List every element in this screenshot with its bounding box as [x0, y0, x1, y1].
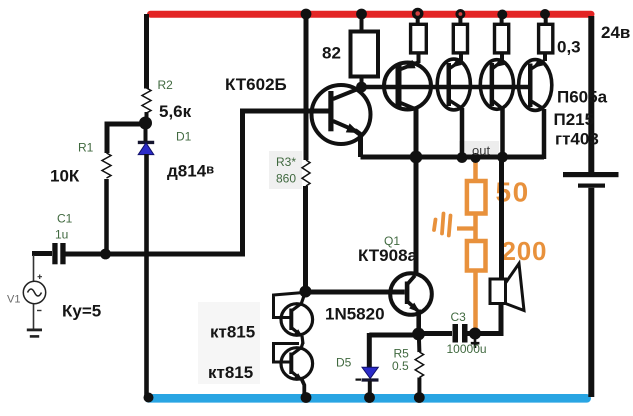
svg-text:10К: 10К [50, 166, 80, 185]
junction dot C3 plus [469, 328, 481, 340]
T4 emitter lead [543, 53, 547, 61]
wire Q1 emitter node to D5 [369, 333, 418, 338]
out bus wire [361, 155, 545, 160]
svg-text:82: 82 [322, 43, 341, 62]
capacitor C3 plate 2 [462, 324, 468, 343]
wire bias node to Q1 base [306, 290, 405, 295]
svg-text:C1: C1 [57, 211, 73, 225]
output transistor T1 circle [384, 63, 431, 110]
kt815 upper base bracket [274, 293, 304, 318]
T3 emitter lead [500, 53, 504, 61]
junction dot C1 node [100, 249, 111, 260]
output transistor T4 circle [519, 60, 552, 111]
speaker [490, 279, 506, 304]
orange wire to C3 node [473, 271, 478, 332]
transistor kt815 lower circle [281, 348, 313, 380]
ground dot D1 [144, 393, 154, 403]
svg-text:1N5820: 1N5820 [325, 304, 385, 323]
label background patch near kt815 labels [198, 302, 260, 384]
wire out bus to speaker [499, 157, 504, 279]
T2 emitter arrow [451, 58, 462, 67]
svg-text:R1: R1 [78, 141, 94, 155]
svg-text:R3*: R3* [276, 155, 296, 169]
junction dot bias node [300, 286, 312, 298]
resistor R5 [415, 352, 423, 378]
wire R2 to node A [145, 112, 149, 122]
junction dot rail 82 [356, 9, 367, 20]
svg-text:out: out [472, 143, 490, 158]
resistor 82 [351, 32, 379, 77]
orange wiper tap [457, 226, 474, 230]
svg-text:кт815: кт815 [210, 323, 255, 342]
terminal ring rail T2 [455, 9, 465, 19]
kt815 lower emitter arrow [294, 373, 304, 381]
Q1 emitter lead [416, 310, 421, 331]
bottom ground rail [149, 394, 587, 403]
V1 minus mark [37, 310, 42, 312]
T4 emitter arrow [532, 59, 543, 68]
wire R1 to C1 node [104, 179, 109, 254]
wire rail to R2 [144, 14, 149, 89]
capacitor C1 plate 1 [52, 243, 57, 264]
svg-text:V1: V1 [7, 294, 20, 306]
svg-text:D5: D5 [336, 356, 352, 370]
orange pot wire from out bus [473, 160, 478, 181]
wire kt815 upper emitter to lower node [302, 336, 303, 344]
svg-text:R2: R2 [158, 78, 174, 92]
svg-text:D1: D1 [176, 130, 192, 144]
svg-text:5,6к: 5,6к [159, 102, 192, 121]
Q1 collector line [408, 276, 416, 285]
wire D5 to ground rail [368, 381, 372, 398]
junction dot bus orange tap [471, 153, 481, 163]
junction dot bus T2 [457, 152, 468, 163]
transistor U1 KT602B circle [312, 85, 371, 144]
kt815 lower base bracket [274, 344, 300, 363]
wire battery to ground rail [588, 188, 594, 397]
zener diode D1 [138, 143, 154, 155]
capacitor C3 plate 1 [453, 324, 459, 343]
T1 emitter arrow [403, 60, 416, 69]
capacitor C1 left wire [32, 251, 52, 256]
wire node A to R1 [107, 124, 146, 153]
transistor U1 KT602B collector line [333, 88, 362, 100]
output transistor T2 circle [437, 59, 470, 110]
svg-text:0.5: 0.5 [392, 359, 409, 373]
T4 emitter line [530, 61, 544, 70]
junction dot KT602B collector [356, 82, 367, 93]
svg-text:860: 860 [276, 171, 296, 185]
T1 collector line [399, 102, 417, 110]
T2 base bar [447, 63, 452, 106]
orange hand marks [434, 214, 451, 236]
junction dot bus T1 [410, 151, 423, 164]
T3 base bar [490, 63, 495, 106]
Q1 base bar [405, 282, 410, 305]
kt815 upper collector line [291, 294, 305, 312]
source V1 [23, 281, 45, 303]
T4 collector lead to bus end [542, 109, 547, 159]
capacitor C3 right wire [468, 331, 477, 336]
transistor Q1 KT908a circle [390, 273, 432, 315]
wire speaker to C3 node [475, 304, 501, 334]
wire 82 to KT602B collector node [360, 77, 364, 88]
battery long plate [563, 172, 619, 177]
ground symbol under V1 [33, 304, 35, 329]
wire rail to R3 [304, 14, 309, 160]
kt815 lower emitter line [291, 372, 301, 380]
T2 collector line [449, 100, 462, 108]
junction dot bus T3 [497, 152, 508, 163]
orange wire between resistors [473, 214, 478, 242]
diode D5 [362, 367, 378, 378]
transistor U1 KT602B emitter arrow [346, 123, 360, 133]
orange resistor 50 [467, 181, 486, 214]
wire C1 to KT602B base [66, 111, 330, 254]
resistor above T4 [539, 24, 553, 53]
ground dot D5 [364, 392, 375, 403]
svg-text:КТ602Б: КТ602Б [225, 75, 287, 94]
node A dot [139, 117, 152, 130]
T3 emitter line [492, 61, 503, 70]
kt815 lower base bar [289, 353, 293, 375]
kt815 lower collector line [291, 343, 303, 356]
Q1 emitter line [408, 302, 418, 311]
T2 emitter lead [459, 53, 463, 61]
wire node A to D1 [144, 123, 148, 141]
svg-text:1u: 1u [55, 228, 68, 242]
capacitor C1 plate 2 [60, 243, 65, 264]
label background patch near out [459, 141, 499, 156]
Q1 emitter arrow [409, 303, 420, 313]
resistor R1 [102, 153, 111, 178]
wire rail to battery [588, 16, 594, 172]
resistor T4 top lead [544, 16, 548, 24]
T3 emitter arrow [494, 58, 505, 67]
svg-text:C3: C3 [451, 310, 467, 324]
resistor 82 top lead [360, 15, 364, 32]
kt815 upper emitter line [291, 328, 301, 336]
junction dot rail R3 [301, 9, 312, 20]
svg-text:200: 200 [502, 236, 548, 266]
top +24V rail [151, 11, 592, 18]
capacitor C3 left wire [419, 331, 453, 336]
junction dot Q1 emitter [412, 328, 425, 341]
svg-text:кт815: кт815 [208, 363, 253, 382]
T4 base bar [528, 64, 533, 108]
ground dot kt815 [301, 392, 312, 403]
resistor R3 [302, 160, 310, 186]
wire down to D5 [367, 333, 372, 367]
battery short plate [578, 184, 605, 188]
T3 collector line [492, 100, 503, 109]
D5 minus tick [356, 379, 362, 381]
kt815 upper emitter arrow [294, 329, 304, 337]
orange resistor 200 [467, 241, 486, 271]
source V1 riser wire [33, 255, 35, 282]
wire D1 anode to ground rail [144, 154, 149, 398]
svg-text:Ку=5: Ку=5 [62, 301, 101, 320]
resistor T1 top lead [416, 17, 420, 24]
wire kt815 lower emitter to ground rail [302, 380, 305, 399]
zener diode D1 cathode bar [138, 141, 154, 144]
V1 plus mark [38, 275, 43, 280]
base bus of output transistors [362, 85, 531, 90]
transistor kt815 upper circle [281, 304, 313, 336]
transistor U1 KT602B base bar [328, 91, 333, 131]
output transistor T3 circle [480, 60, 513, 110]
svg-text:КТ908а: КТ908а [358, 246, 418, 265]
T2 collector lead to bus [460, 108, 465, 157]
T3 collector lead to bus [500, 109, 505, 158]
resistor R5 bottom lead [417, 378, 421, 399]
svg-text:24в: 24в [601, 23, 630, 42]
junction dot rail T3 [497, 10, 507, 20]
resistor above T1 [411, 24, 427, 53]
svg-text:гт403: гт403 [555, 129, 599, 148]
T1 base bar [396, 64, 402, 108]
T1 emitter line [399, 62, 420, 70]
svg-text:П605а: П605а [557, 87, 608, 106]
T2 emitter line [449, 60, 462, 69]
C3 polarity cross [471, 339, 480, 349]
terminal ring rail T1 [412, 8, 424, 20]
svg-text:0,3: 0,3 [557, 38, 581, 57]
resistor R5 top lead [417, 334, 422, 352]
resistor R2 [142, 88, 151, 113]
T1 emitter lead [417, 53, 421, 64]
transistor U1 KT602B emitter line [333, 121, 356, 131]
wire T1 collector through Q1 collector [414, 109, 419, 275]
svg-text:10000u: 10000u [447, 342, 487, 356]
svg-text:П215: П215 [554, 110, 595, 129]
wire R3 to bias node [303, 186, 308, 292]
T4 collector line [530, 101, 544, 110]
junction dot rail T4 [540, 9, 550, 19]
resistor T2 top lead [458, 17, 462, 24]
ground dot R5 [414, 392, 425, 403]
resistor above T2 [453, 24, 467, 53]
resistor above T3 [495, 24, 509, 53]
kt815 upper base bar [289, 309, 293, 331]
label background patch near R3 [269, 151, 302, 189]
wire KT602B emitter to out bus [355, 131, 361, 158]
diode D5 cathode bar [362, 378, 379, 381]
resistor T3 top lead [500, 16, 504, 24]
